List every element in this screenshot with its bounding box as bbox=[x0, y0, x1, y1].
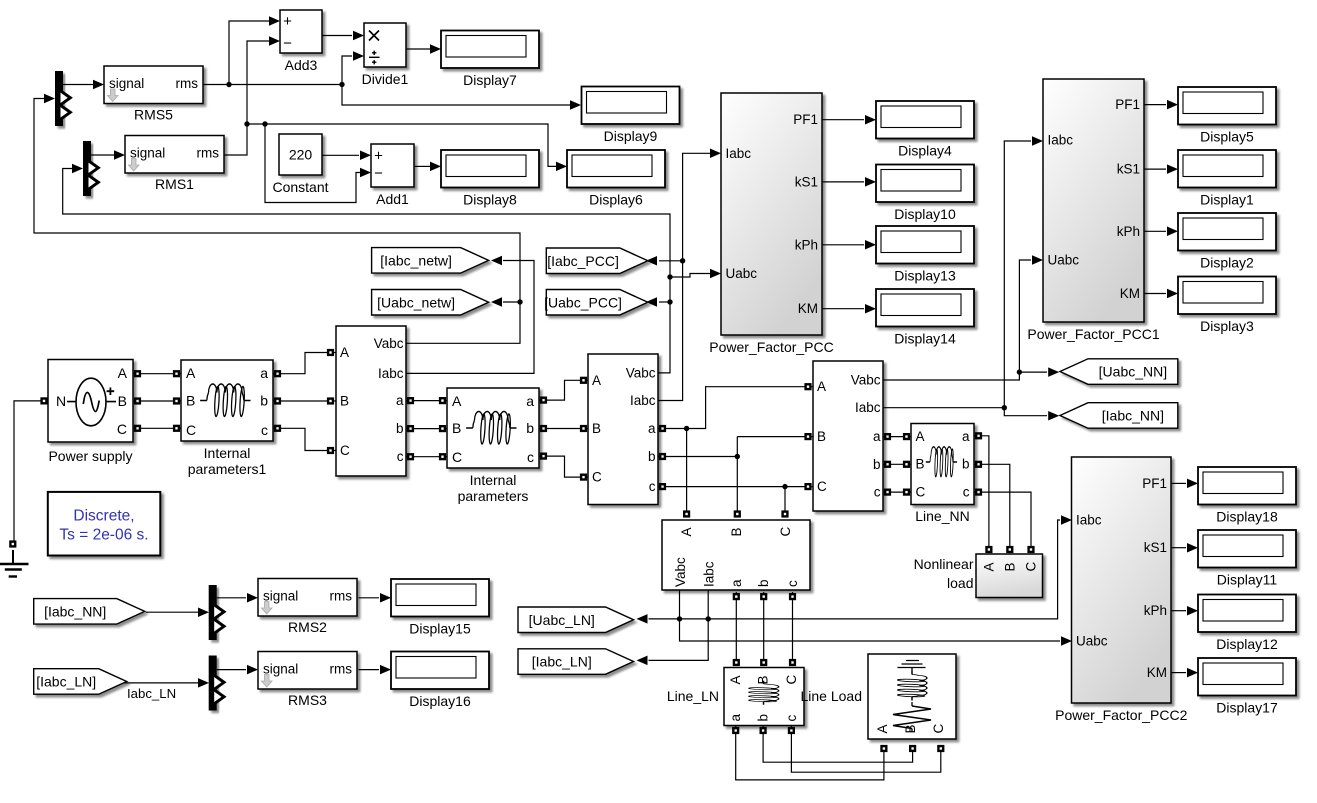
svg-text:Display12: Display12 bbox=[1216, 636, 1278, 652]
svg-text:kPh: kPh bbox=[1144, 603, 1167, 618]
svg-text:RMS5: RMS5 bbox=[134, 107, 173, 123]
svg-text:Display1: Display1 bbox=[1200, 192, 1254, 208]
svg-text:c: c bbox=[261, 422, 268, 438]
svg-text:Display3: Display3 bbox=[1200, 318, 1254, 334]
svg-text:kPh: kPh bbox=[795, 237, 818, 252]
svg-text:Display5: Display5 bbox=[1200, 129, 1254, 145]
svg-text:c: c bbox=[397, 449, 404, 464]
svg-text:A: A bbox=[679, 527, 694, 536]
svg-text:Line_NN: Line_NN bbox=[915, 508, 969, 524]
svg-text:rms: rms bbox=[330, 589, 353, 604]
svg-text:Uabc: Uabc bbox=[726, 266, 758, 281]
svg-text:[Uabc_LN]: [Uabc_LN] bbox=[529, 612, 595, 628]
svg-text:[Iabc_PCC]: [Iabc_PCC] bbox=[547, 253, 619, 269]
svg-text:rms: rms bbox=[197, 146, 220, 161]
svg-text:a: a bbox=[648, 421, 656, 436]
svg-text:A: A bbox=[118, 365, 128, 381]
svg-text:RMS2: RMS2 bbox=[288, 619, 327, 635]
svg-text:kPh: kPh bbox=[1117, 224, 1140, 239]
svg-text:kS1: kS1 bbox=[1117, 162, 1140, 177]
svg-text:Vabc: Vabc bbox=[626, 365, 656, 380]
svg-text:−: − bbox=[283, 35, 292, 52]
svg-text:Nonlinear: Nonlinear bbox=[914, 556, 974, 572]
svg-text:load: load bbox=[947, 575, 973, 591]
svg-text:Iabc: Iabc bbox=[855, 400, 881, 415]
svg-text:B: B bbox=[592, 421, 601, 436]
svg-text:Iabc: Iabc bbox=[630, 393, 656, 408]
svg-text:Iabc: Iabc bbox=[1048, 133, 1074, 148]
svg-text:Uabc: Uabc bbox=[1076, 634, 1108, 649]
svg-text:kS1: kS1 bbox=[795, 174, 818, 189]
svg-text:B: B bbox=[452, 420, 461, 436]
svg-text:N: N bbox=[56, 393, 66, 409]
svg-text:Display9: Display9 bbox=[604, 128, 658, 144]
svg-text:Display18: Display18 bbox=[1216, 509, 1278, 525]
svg-text:Display8: Display8 bbox=[463, 192, 517, 208]
svg-text:a: a bbox=[729, 579, 744, 587]
svg-text:Line Load: Line Load bbox=[800, 688, 862, 704]
svg-text:Add1: Add1 bbox=[376, 191, 409, 207]
svg-text:Display7: Display7 bbox=[463, 72, 517, 88]
svg-text:Display14: Display14 bbox=[894, 331, 956, 347]
svg-text:[Iabc_netw]: [Iabc_netw] bbox=[380, 252, 452, 268]
svg-text:C: C bbox=[916, 485, 926, 500]
svg-text:b: b bbox=[962, 457, 970, 472]
svg-text:Display15: Display15 bbox=[409, 621, 471, 637]
svg-text:b: b bbox=[756, 579, 771, 587]
svg-text:Display6: Display6 bbox=[589, 192, 643, 208]
svg-text:RMS1: RMS1 bbox=[155, 176, 194, 192]
svg-text:C: C bbox=[592, 470, 602, 485]
svg-text:Power_Factor_PCC2: Power_Factor_PCC2 bbox=[1055, 707, 1187, 723]
svg-text:a: a bbox=[962, 429, 970, 444]
svg-text:Constant: Constant bbox=[272, 179, 328, 195]
svg-text:A: A bbox=[452, 393, 462, 409]
svg-text:KM: KM bbox=[1147, 665, 1167, 680]
svg-text:a: a bbox=[728, 714, 743, 722]
svg-text:Uabc: Uabc bbox=[1048, 253, 1080, 268]
svg-text:Divide1: Divide1 bbox=[362, 71, 409, 87]
svg-text:[Uabc_netw]: [Uabc_netw] bbox=[377, 294, 455, 310]
svg-text:+: + bbox=[283, 13, 292, 30]
svg-text:C: C bbox=[1024, 562, 1039, 572]
svg-text:parameters1: parameters1 bbox=[188, 461, 267, 477]
svg-text:Add3: Add3 bbox=[285, 57, 318, 73]
svg-text:Power supply: Power supply bbox=[48, 448, 132, 464]
svg-text:[Iabc_NN]: [Iabc_NN] bbox=[44, 603, 106, 619]
svg-text:parameters: parameters bbox=[458, 488, 529, 504]
svg-text:B: B bbox=[1002, 562, 1017, 571]
svg-text:Vabc: Vabc bbox=[851, 373, 881, 388]
svg-text:Power_Factor_PCC1: Power_Factor_PCC1 bbox=[1027, 326, 1159, 342]
svg-text:c: c bbox=[784, 715, 799, 722]
svg-text:rms: rms bbox=[330, 662, 353, 677]
svg-text:[Uabc_NN]: [Uabc_NN] bbox=[1099, 364, 1167, 380]
svg-text:PF1: PF1 bbox=[1115, 97, 1140, 112]
svg-text:Display16: Display16 bbox=[409, 693, 471, 709]
svg-text:Display17: Display17 bbox=[1216, 700, 1278, 716]
svg-text:Display11: Display11 bbox=[1217, 572, 1278, 588]
svg-text:Iabc: Iabc bbox=[378, 366, 404, 381]
svg-text:A: A bbox=[728, 675, 743, 684]
svg-text:b: b bbox=[873, 457, 881, 472]
svg-text:kS1: kS1 bbox=[1144, 540, 1167, 555]
svg-text:c: c bbox=[785, 580, 800, 587]
svg-text:[Iabc_LN]: [Iabc_LN] bbox=[36, 673, 96, 689]
svg-text:Vabc: Vabc bbox=[673, 557, 688, 587]
svg-text:Vabc: Vabc bbox=[374, 336, 404, 351]
svg-text:A: A bbox=[186, 365, 196, 381]
svg-text:c: c bbox=[527, 449, 534, 465]
svg-text:[Uabc_PCC]: [Uabc_PCC] bbox=[544, 294, 622, 310]
svg-text:C: C bbox=[784, 675, 799, 685]
svg-text:PF1: PF1 bbox=[793, 112, 818, 127]
svg-text:a: a bbox=[526, 393, 534, 409]
svg-text:KM: KM bbox=[1120, 286, 1140, 301]
svg-text:Display2: Display2 bbox=[1200, 255, 1254, 271]
svg-text:c: c bbox=[649, 479, 656, 494]
svg-text:[Iabc_LN]: [Iabc_LN] bbox=[532, 654, 592, 670]
svg-text:B: B bbox=[186, 393, 195, 409]
svg-text:B: B bbox=[817, 429, 826, 444]
svg-text:A: A bbox=[817, 379, 826, 394]
svg-text:Iabc: Iabc bbox=[726, 146, 752, 161]
svg-text:Iabc: Iabc bbox=[1076, 513, 1102, 528]
svg-text:C: C bbox=[931, 724, 946, 734]
svg-text:Display13: Display13 bbox=[894, 268, 956, 284]
svg-text:[Iabc_NN]: [Iabc_NN] bbox=[1102, 407, 1164, 423]
svg-text:C: C bbox=[340, 443, 350, 458]
svg-text:c: c bbox=[963, 485, 970, 500]
svg-text:B: B bbox=[916, 457, 925, 472]
svg-text:rms: rms bbox=[176, 76, 199, 91]
svg-text:KM: KM bbox=[798, 301, 818, 316]
svg-text:Line_LN: Line_LN bbox=[667, 688, 719, 704]
svg-text:Iabc: Iabc bbox=[702, 561, 717, 587]
svg-text:Ts = 2e-06 s.: Ts = 2e-06 s. bbox=[59, 527, 148, 544]
svg-text:Internal: Internal bbox=[470, 472, 517, 488]
svg-text:A: A bbox=[982, 562, 997, 571]
svg-text:B: B bbox=[118, 393, 127, 409]
svg-text:RMS3: RMS3 bbox=[288, 692, 327, 708]
svg-text:−: − bbox=[374, 165, 383, 182]
svg-text:A: A bbox=[916, 429, 925, 444]
svg-text:B: B bbox=[340, 394, 349, 409]
svg-text:Display4: Display4 bbox=[898, 143, 952, 159]
svg-text:b: b bbox=[260, 393, 268, 409]
svg-text:A: A bbox=[592, 373, 601, 388]
svg-text:B: B bbox=[903, 724, 918, 733]
svg-text:A: A bbox=[340, 345, 349, 360]
svg-text:Internal: Internal bbox=[204, 445, 251, 461]
svg-text:+: + bbox=[374, 148, 383, 165]
svg-text:a: a bbox=[260, 365, 268, 381]
svg-text:C: C bbox=[186, 422, 196, 438]
svg-text:C: C bbox=[778, 527, 793, 537]
svg-text:C: C bbox=[452, 449, 462, 465]
svg-text:B: B bbox=[729, 527, 744, 536]
svg-text:C: C bbox=[817, 479, 827, 494]
svg-text:a: a bbox=[873, 429, 881, 444]
svg-text:A: A bbox=[875, 724, 890, 733]
svg-text:PF1: PF1 bbox=[1142, 476, 1167, 491]
svg-text:b: b bbox=[756, 714, 771, 722]
svg-text:Display10: Display10 bbox=[894, 206, 956, 222]
svg-text:Power_Factor_PCC: Power_Factor_PCC bbox=[709, 339, 834, 355]
svg-text:220: 220 bbox=[289, 147, 313, 163]
svg-text:a: a bbox=[396, 393, 404, 408]
svg-text:Discrete,: Discrete, bbox=[73, 508, 134, 525]
svg-text:C: C bbox=[117, 421, 127, 437]
svg-text:Iabc_LN: Iabc_LN bbox=[127, 686, 176, 701]
svg-text:b: b bbox=[396, 421, 404, 436]
svg-text:c: c bbox=[874, 485, 881, 500]
svg-text:b: b bbox=[648, 449, 656, 464]
svg-text:b: b bbox=[526, 420, 534, 436]
